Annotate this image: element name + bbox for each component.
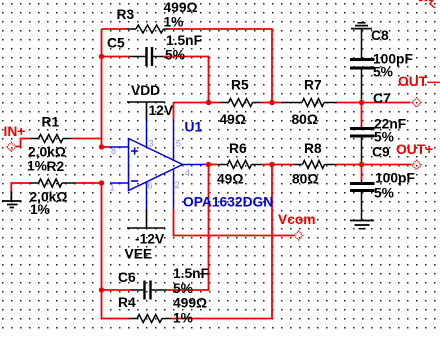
svg-text:80Ω: 80Ω: [292, 112, 318, 127]
svg-text:1%: 1%: [164, 15, 184, 30]
svg-text:R7: R7: [304, 78, 322, 93]
svg-text:OPA1632DGN: OPA1632DGN: [183, 195, 273, 210]
svg-text:6: 6: [148, 181, 153, 191]
pin 5 stub (OUT-): [173, 119, 175, 161]
resistor R7: [281, 99, 337, 107]
svg-text:R5: R5: [231, 78, 249, 93]
wire C7 top stem: [361, 126, 363, 127]
svg-text:1: 1: [110, 183, 115, 193]
wire C5 to OUT- net: [164, 57, 209, 103]
junction dot 6: [206, 162, 211, 167]
svg-text:49Ω: 49Ω: [220, 112, 246, 127]
resistor R4: [129, 315, 171, 323]
pin 8 stub (+IN): [110, 146, 129, 148]
svg-text:49Ω: 49Ω: [217, 172, 243, 187]
svg-text:1%: 1%: [27, 159, 47, 174]
wire C7 bottom stem: [361, 137, 363, 162]
resistor R8: [294, 161, 335, 169]
wire R4 to OUT+ net: [171, 165, 273, 319]
svg-text:5%: 5%: [173, 281, 193, 296]
junction dot 5: [206, 100, 211, 105]
svg-text:1.5nF: 1.5nF: [166, 33, 202, 48]
wire node A to R3: [102, 28, 128, 30]
svg-text:C5: C5: [107, 36, 125, 51]
svg-text:C8: C8: [371, 28, 389, 43]
svg-text:8: 8: [111, 146, 116, 156]
capacitor C5: [129, 47, 164, 66]
op-amp U1 triangle: [129, 139, 183, 191]
wire R8 to OUT+ port: [335, 164, 411, 166]
svg-text:5%: 5%: [373, 65, 393, 80]
svg-text:5%: 5%: [374, 186, 394, 201]
svg-text:1.5nF: 1.5nF: [173, 266, 209, 281]
wire ground to R2: [11, 183, 29, 192]
wire R1 to node A: [72, 138, 102, 140]
svg-text:OUT—: OUT—: [398, 74, 440, 89]
svg-text:VDD: VDD: [131, 83, 160, 98]
wire C9 top stem: [361, 180, 363, 182]
pin 3 stub (VDD): [146, 120, 148, 148]
wire R6 to R8: [262, 164, 295, 166]
pin 2 stub (VOCM): [173, 169, 175, 209]
svg-text:1%: 1%: [30, 202, 50, 217]
wire C8 top stem: [361, 29, 363, 59]
svg-text:80Ω: 80Ω: [292, 172, 318, 187]
capacitor C8: [350, 60, 375, 69]
svg-text:OUT+: OUT+: [396, 142, 433, 157]
resistor R1: [30, 135, 72, 143]
wire R5 to R7: [261, 102, 281, 104]
ground (bottom right, below C9): [350, 221, 374, 229]
wire node A to C5: [102, 56, 130, 58]
wire pin 2 to Vcom port: [174, 209, 294, 236]
ground (top right, above C8): [351, 23, 372, 29]
wire C6 to OUT+ net: [167, 165, 209, 291]
wire node A vertical riser (inverting input net): [101, 29, 103, 147]
svg-text:IN+: IN+: [4, 124, 26, 139]
svg-text:C6: C6: [118, 270, 136, 285]
svg-text:R6: R6: [229, 141, 247, 156]
port OUT-: [412, 98, 421, 107]
svg-text:499Ω: 499Ω: [173, 296, 207, 311]
pin 1 stub (-IN): [110, 182, 129, 184]
wire pin 4 to R6: [205, 164, 218, 166]
svg-text:U1: U1: [185, 120, 203, 135]
svg-text:3: 3: [149, 139, 154, 149]
ground (left, at R2 input): [2, 191, 22, 208]
svg-text:C9: C9: [372, 145, 390, 160]
junction dot 2: [99, 144, 104, 149]
wire node B vertical riser: [101, 183, 103, 290]
wire node B to R4: [102, 290, 130, 319]
svg-text:12V: 12V: [149, 103, 174, 118]
resistor R5: [219, 99, 261, 107]
junction dot 10: [359, 162, 364, 167]
svg-text:R3: R3: [117, 7, 135, 22]
svg-text:100pF: 100pF: [375, 171, 415, 186]
svg-text:2,0kΩ: 2,0kΩ: [28, 145, 66, 160]
svg-text:499Ω: 499Ω: [164, 0, 198, 15]
svg-text:R2: R2: [47, 159, 65, 174]
port OUT+: [412, 160, 421, 169]
op-amp plus input marker: [131, 147, 138, 154]
resistor R2: [30, 179, 76, 187]
svg-text:4: 4: [185, 168, 190, 178]
capacitor C7: [350, 129, 375, 137]
port Vcom: [294, 231, 303, 240]
junction dot 7: [269, 100, 274, 105]
svg-text:R8: R8: [304, 141, 322, 156]
junction dot 8: [269, 162, 274, 167]
svg-text:C7: C7: [373, 91, 391, 106]
wire R2 to node B: [75, 182, 102, 184]
junction dot 1: [99, 54, 104, 59]
svg-text:5%: 5%: [165, 48, 185, 63]
svg-text:2: 2: [175, 180, 180, 190]
wire R7 to OUT- port: [337, 102, 411, 104]
junction dot 9: [359, 100, 364, 105]
port IN+: [7, 142, 16, 151]
VEE power rail symbol: [127, 209, 165, 228]
capacitor C6: [131, 281, 167, 300]
svg-text:5%: 5%: [374, 130, 394, 145]
capacitor C9: [350, 184, 375, 191]
svg-text:VEE: VEE: [125, 247, 153, 262]
pin 6 stub (VEE): [146, 182, 148, 209]
wire node A to pin 8: [102, 146, 111, 148]
svg-text:-12V: -12V: [135, 232, 165, 247]
resistor R6: [217, 161, 262, 169]
wire IN+ port to R1: [16, 139, 31, 147]
wire pin 5 stub: [173, 103, 175, 120]
wire C9 bottom stem: [361, 192, 363, 220]
wire C7 to C9 node: [361, 162, 363, 180]
wire node B to C6: [102, 289, 132, 291]
svg-text:Vcom: Vcom: [278, 212, 316, 227]
junction dot 4: [99, 287, 104, 292]
resistor R3: [127, 25, 169, 33]
svg-text:5: 5: [176, 139, 181, 149]
svg-text:1%: 1%: [173, 311, 193, 326]
wire R3 to OUT- net: [169, 29, 273, 102]
wire pin 5 to R5: [174, 102, 220, 104]
svg-text:R1: R1: [42, 115, 60, 130]
svg-text:R4: R4: [118, 295, 136, 310]
op-amp minus input marker: [131, 180, 138, 182]
cut-off port artifact top right: [419, 0, 435, 8]
wire C8 to C7 node: [361, 99, 363, 126]
junction dot 3: [99, 180, 104, 185]
pin 4 stub (OUT+): [183, 164, 205, 166]
wire C8 bottom stem: [361, 69, 363, 99]
VDD power rail symbol: [127, 102, 165, 120]
